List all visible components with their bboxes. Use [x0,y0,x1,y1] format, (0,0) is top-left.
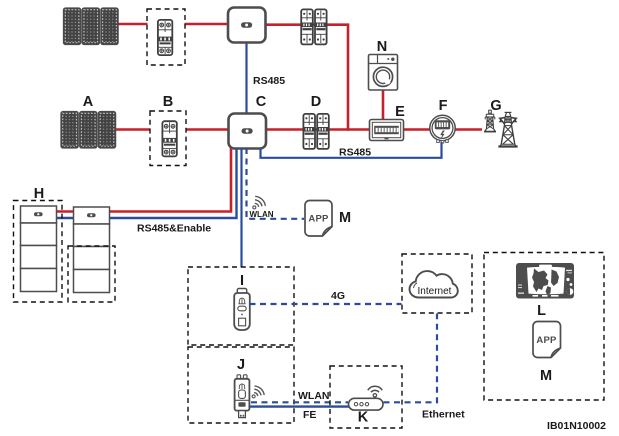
DC switch breaker B [162,121,176,156]
svg-text:M: M [540,368,552,384]
dashed box J [188,347,294,423]
svg-text:D: D [311,94,321,110]
PV array A [61,112,116,149]
power meter F [430,115,455,143]
battery wires red [57,210,74,213]
grid tower large [498,112,517,146]
battery expansion dashed box [68,246,115,302]
svg-text:APP: APP [308,214,329,225]
svg-text:C: C [256,94,267,110]
svg-text:N: N [377,39,387,55]
svg-text:B: B [163,94,173,110]
wire: inverter C through breakers D to meter E [266,128,370,131]
battery tower 1 [21,206,57,292]
dashed box L/M [484,253,604,401]
dashed box K [330,366,402,428]
dashed wire 4G: dongle I to Internet [250,303,402,305]
inverter top (unlabeled) [228,8,266,43]
monitor L [516,263,574,299]
grid tower small [484,110,496,131]
svg-text:I: I [240,273,244,289]
wire: washing machine N drop to E [382,89,385,120]
power distribution box E [370,120,404,141]
inverter C [229,114,267,149]
svg-text:F: F [439,98,448,114]
dongle J [235,375,250,418]
svg-text:M: M [339,210,351,226]
dashed wire Ethernet: router K to Internet [384,314,438,403]
router K [349,386,384,410]
battery wires blue [57,217,74,219]
svg-text:RS485: RS485 [339,147,371,159]
wire: PV A to box B [115,128,151,131]
svg-text:RS485&Enable: RS485&Enable [137,223,211,235]
Internet cloud [410,271,458,297]
svg-text:APP: APP [536,335,557,346]
svg-text:RS485: RS485 [253,75,285,87]
svg-text:WLAN: WLAN [298,390,330,402]
svg-text:WLAN: WLAN [250,210,274,219]
washing machine N [369,55,398,91]
APP icon M (top) [305,201,332,237]
AC breaker pair top (unlabeled) [301,9,326,44]
wire blue: inverter C down to box I [240,148,242,267]
WLAN icon at inverter C [253,196,266,209]
dashed box Internet [402,254,472,313]
svg-text:J: J [237,357,245,373]
wire blue RS485: inverter C to meter F [261,142,442,158]
svg-text:IB01N10002: IB01N10002 [547,420,606,432]
wire: meter F to grid G [455,128,482,131]
svg-text:G: G [490,98,501,114]
DC switch dashed box B [150,111,186,166]
dongle I [234,289,250,331]
battery tower 2 [74,207,110,293]
wire RS485: inverter top to inverter C [245,42,247,114]
AC breaker pair D [303,114,328,149]
APP icon M (right) [533,322,561,358]
PV array top (unlabeled) [64,8,119,45]
wire: box B to inverter C [186,128,229,131]
battery dashed box H [14,201,63,303]
svg-text:K: K [358,410,369,426]
svg-text:FE: FE [303,409,316,421]
DC switch dashed box (top) [147,9,185,65]
dashed box I [188,267,294,345]
wifi waves at dongle J [252,386,264,398]
DC switch breaker (top) [158,20,172,55]
wire: meter E to meter F [403,128,430,131]
svg-text:A: A [83,94,94,110]
svg-text:Internet: Internet [418,286,452,297]
svg-text:E: E [395,104,405,120]
svg-text:Ethernet: Ethernet [422,409,465,421]
dashed wire: inverter C WLAN to APP M [247,148,305,219]
svg-text:H: H [34,186,44,202]
wire: DC switch box to inverter top [185,23,229,26]
wire: inverter top through AC breakers top, down to row C [265,25,348,131]
dashed wire WLAN: dongle J to router K [251,401,348,403]
wire: PV top to DC switch box [118,23,148,26]
svg-text:L: L [537,303,546,319]
wire FE: dongle J to router K [250,405,350,407]
svg-text:4G: 4G [331,290,345,302]
